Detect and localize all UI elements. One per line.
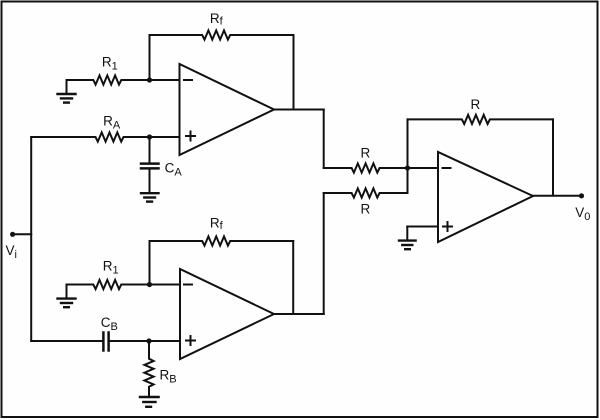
resistor R1 (stage B) xyxy=(67,280,181,289)
wire: Rf-A left leg xyxy=(149,35,151,80)
op-amp U2 xyxy=(180,269,274,359)
wire: summing node vertical xyxy=(407,119,409,193)
wire: Vi input stub xyxy=(13,233,32,235)
node: U1 non-inverting input junction xyxy=(147,134,152,139)
wire: to U3 inverting input xyxy=(408,167,439,169)
wire: Rf-A right leg to U1 output xyxy=(293,35,295,110)
capacitor CB xyxy=(103,333,180,351)
node: V0 terminal xyxy=(579,193,584,198)
wire: Vi vertical bus xyxy=(30,137,32,341)
node: U2 non-inverting input junction xyxy=(146,338,151,343)
op-amp U1 xyxy=(180,64,275,155)
wire: Rf-B left leg xyxy=(149,241,151,285)
capacitor CA xyxy=(141,137,159,193)
resistor Rf (stage B) xyxy=(150,236,294,245)
wire: U1 output down leg xyxy=(323,110,325,169)
svg-text:R: R xyxy=(471,97,481,112)
wire: U1 output xyxy=(274,109,324,111)
resistor R1 (stage A) xyxy=(67,75,180,84)
resistor RA xyxy=(31,132,179,141)
node: summing junction xyxy=(405,165,410,170)
resistor Rf (stage A) xyxy=(150,30,294,39)
svg-text:R: R xyxy=(361,145,371,160)
resistor RB xyxy=(144,341,153,397)
wire: Rf-B right leg to U2 output xyxy=(292,241,294,314)
ground (below CA) xyxy=(141,193,159,201)
node: Vi terminal xyxy=(10,232,15,237)
resistor R (top middle) xyxy=(324,163,408,172)
wire: Vi to CB xyxy=(31,340,102,342)
node: U2 inverting input junction xyxy=(147,282,152,287)
wire: U2 output up leg xyxy=(323,193,325,314)
ground (U3 non-inverting input) xyxy=(399,227,416,250)
wire: U3 non-inverting input xyxy=(407,226,438,228)
ground (stage B, R1) xyxy=(58,285,76,308)
op-amp U3 xyxy=(438,152,533,242)
resistor R (U3 feedback) xyxy=(408,115,554,124)
wire: U2 output xyxy=(274,313,324,315)
wire: U3 feedback right leg xyxy=(552,119,554,195)
resistor R (bottom middle) xyxy=(324,188,408,197)
ground (stage A, R1) xyxy=(58,80,76,103)
svg-text:R: R xyxy=(361,202,371,217)
wire: U3 output xyxy=(533,195,582,197)
node: U1 inverting input junction xyxy=(147,77,152,82)
ground (below RB) xyxy=(140,397,159,407)
